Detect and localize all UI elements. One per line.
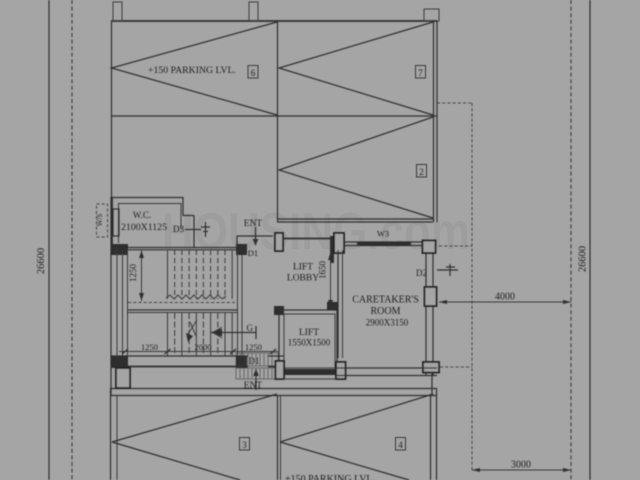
column stub top-middle (249, 2, 258, 21)
stair direction long arrow with G marker (210, 323, 256, 339)
svg-text:LOBBY: LOBBY (287, 274, 319, 284)
parking bay 2 triangle (279, 117, 433, 218)
svg-text:7: 7 (418, 68, 423, 78)
stair column bottom-left (111, 356, 128, 368)
dimension 4000 (439, 292, 571, 305)
svg-text:LIFT: LIFT (293, 263, 313, 273)
stair mid landing lines (128, 302, 237, 304)
svg-text:CARETAKER'S: CARETAKER'S (352, 295, 419, 306)
exterior left wall upper (111, 21, 113, 197)
svg-text:1250: 1250 (141, 342, 158, 352)
caretaker right wall column bottom (423, 362, 439, 373)
svg-text:W3: W3 (377, 229, 389, 239)
duct in wall (113, 209, 119, 236)
stair block top wall (111, 247, 237, 249)
svg-text:D1: D1 (248, 248, 258, 258)
svg-text:1250: 1250 (245, 342, 262, 352)
parking bay 4 triangle (280, 394, 433, 480)
stair west wall inner lines (122, 250, 124, 356)
dimension 3000 (472, 460, 571, 473)
stair direction arrow (bent) (186, 320, 197, 342)
exterior right wall upper (double) (433, 21, 435, 222)
site boundary line left dashed (71, 0, 73, 480)
stair treads lower flight (168, 313, 233, 356)
svg-text:W.C.: W.C. (133, 210, 151, 220)
column stub on band wall left (116, 368, 130, 388)
dashed horizontal y=367 (440, 366, 472, 368)
svg-text:2100X1125: 2100X1125 (121, 222, 168, 232)
parking bay 3 triangle (112, 394, 277, 480)
svg-text:26600: 26600 (36, 248, 47, 274)
lift lobby label (287, 263, 319, 284)
svg-text:G: G (247, 323, 254, 333)
svg-text:D1: D1 (249, 356, 260, 366)
svg-text:26600: 26600 (578, 246, 589, 272)
door D2 marker (437, 264, 458, 276)
stair bottom wall (111, 355, 248, 357)
lift lobby top wall (283, 238, 331, 240)
svg-text:6: 6 (251, 68, 256, 78)
column stub top-right (424, 9, 439, 21)
svg-text:4000: 4000 (495, 292, 515, 303)
column stub top-left (113, 2, 122, 21)
svg-text:W/S: W/S (96, 214, 104, 227)
stair column bottom-right (236, 356, 247, 368)
caretaker right wall column mid (425, 287, 437, 306)
W/S shaft dashed box (96, 204, 108, 237)
stair east wall (237, 250, 239, 356)
dimension 1650 (rotated) (318, 252, 334, 308)
site boundary line right dashed (570, 0, 572, 480)
svg-text:ENT: ENT (244, 381, 263, 391)
caretaker bottom wall (337, 367, 437, 369)
lower band right wall (430, 396, 432, 480)
property dashed outline right: horizontal y=103 (437, 102, 472, 104)
central wall bottom column (336, 362, 346, 379)
stall number 3 (240, 438, 250, 451)
caretaker top wall with window W3 (344, 242, 425, 247)
parking bays divider vertical (277, 21, 279, 222)
svg-text:3000: 3000 (511, 460, 531, 471)
column at lobby/caretaker wall top (330, 236, 334, 263)
lift shaft walls (274, 302, 338, 379)
vestibule column (275, 233, 283, 251)
parking band bottom wall (double) (277, 218, 433, 220)
svg-text:2900X3150: 2900X3150 (366, 318, 409, 328)
vestibule hatched step band lower (236, 368, 283, 379)
svg-text:LIFT: LIFT (299, 328, 319, 338)
site boundary line left solid (48, 0, 50, 480)
wall stub below caretaker column (431, 373, 433, 397)
svg-text:ENT: ENT (244, 219, 263, 229)
caretaker right wall column top (423, 241, 436, 254)
parking rows divider horizontal (111, 115, 437, 117)
svg-text:4: 4 (398, 440, 403, 450)
stall number 4 (396, 438, 406, 451)
svg-text:3: 3 (242, 440, 247, 450)
svg-text:1650: 1650 (318, 261, 328, 280)
exterior left wall middle (double) (110, 197, 112, 396)
site boundary line right solid (589, 0, 591, 480)
svg-text:1250: 1250 (128, 264, 138, 283)
stair column top-left (111, 244, 128, 255)
stair column top-right (236, 244, 247, 255)
exterior top wall (111, 20, 437, 22)
W.C. room walls (112, 197, 194, 248)
stair break line (zigzag) (166, 295, 226, 299)
stair treads upper flight (168, 250, 233, 299)
parking bay 6 triangle (112, 22, 278, 115)
svg-text:D2: D2 (416, 268, 427, 278)
lobby entry wall top (237, 235, 273, 237)
caretaker right wall (425, 240, 427, 376)
dashed horizontal y=246 (439, 245, 472, 247)
dimension 1250 stair width (rotated) (128, 250, 144, 301)
section marker G at D3 (201, 222, 210, 237)
svg-text:2000: 2000 (195, 342, 212, 352)
dashed vertical x=472 (471, 103, 473, 470)
parking bay 7 triangle (279, 22, 433, 115)
svg-text:1550X1500: 1550X1500 (288, 338, 331, 348)
svg-text:D3: D3 (173, 224, 184, 234)
vestibule hatched step band upper (236, 353, 278, 366)
caretaker room label (352, 295, 419, 328)
svg-text:+150 PARKING LVL.: +150 PARKING LVL. (148, 65, 236, 75)
lobby/caretaker central wall (337, 250, 339, 358)
svg-text:ROOM: ROOM (370, 306, 400, 317)
lower band left wall (110, 388, 112, 480)
svg-text:+150 PARKING LVL.: +150 PARKING LVL. (285, 474, 375, 480)
door D3 leaf line (185, 229, 201, 231)
entrance arrow bottom (up) (253, 369, 259, 391)
stall number 2 (417, 165, 427, 178)
stall number 6 (248, 66, 258, 79)
stair dimension line bottom (119, 349, 278, 354)
stall number 7 (416, 66, 426, 79)
lower band divider wall (277, 396, 279, 480)
lower band top wall (double) (110, 388, 437, 390)
entrance arrow top (down) (253, 227, 258, 246)
svg-text:2: 2 (419, 167, 424, 177)
